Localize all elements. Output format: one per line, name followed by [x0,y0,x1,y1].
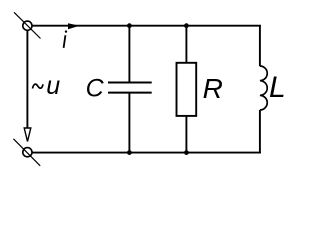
svg-text:L: L [269,71,286,104]
svg-text:u: u [46,72,60,100]
node bottom capacitor junction [127,150,132,155]
wire inductor top [259,25,261,66]
node top resistor junction [184,23,189,28]
svg-text:C: C [86,74,105,102]
terminal bottom-left [23,148,32,157]
top wire [31,25,261,27]
svg-text:R: R [203,73,223,104]
voltage arrowhead u [24,128,31,142]
wire capacitor top [128,26,130,83]
node bottom resistor junction [184,150,189,155]
capacitor C plates [108,82,152,84]
label ~u tilde [33,84,44,88]
slash top terminal [14,12,41,38]
inductor L coil [260,66,267,110]
wire inductor bottom [259,110,261,153]
wire resistor bottom [185,116,187,153]
wire resistor top [185,26,187,63]
current arrow i [68,23,80,29]
slash bottom terminal [13,139,40,166]
wire capacitor bottom [128,93,130,153]
wire source vertical [26,30,28,128]
terminal top-left [23,21,32,30]
node top capacitor junction [127,23,132,28]
label i [64,35,66,48]
bottom wire [32,152,261,154]
resistor R body [177,63,197,116]
